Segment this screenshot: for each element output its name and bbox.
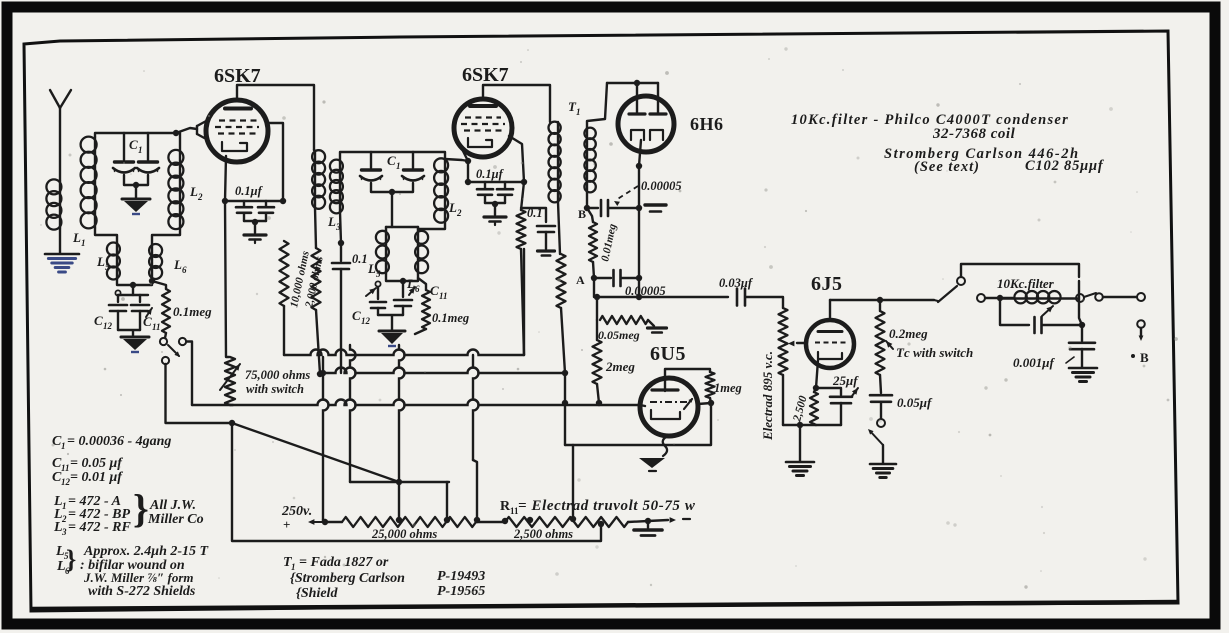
capacitor C11 (tank2) bbox=[394, 281, 415, 315]
svg-text:32-7368 coil: 32-7368 coil bbox=[932, 126, 1016, 142]
coil tank1 primary bbox=[81, 137, 97, 229]
svg-text:L: L bbox=[367, 261, 376, 276]
ground (U1 bypass) bbox=[244, 235, 266, 243]
wire to ground U5 bbox=[799, 425, 801, 461]
svg-text:0.03μf: 0.03μf bbox=[719, 276, 754, 290]
coil 10Kc filter bbox=[1000, 291, 1078, 303]
note L2 value bbox=[53, 507, 130, 524]
note 10Kc filter Philco bbox=[791, 112, 1069, 128]
note bifilar bbox=[80, 558, 185, 573]
wire caps node U1 bbox=[244, 219, 266, 233]
terminal output bbox=[1137, 293, 1145, 301]
resistor 0.01meg bbox=[587, 208, 597, 278]
svg-text:3: 3 bbox=[61, 527, 67, 537]
svg-text:5: 5 bbox=[376, 269, 381, 279]
svg-text:6: 6 bbox=[182, 265, 187, 275]
wire bus H2 bbox=[192, 400, 640, 407]
label C1 (tank2) bbox=[387, 153, 401, 171]
wire U1 screen right bbox=[266, 123, 286, 204]
svg-text:1: 1 bbox=[576, 107, 581, 117]
label with switch bbox=[246, 382, 304, 396]
wire pot middle bbox=[476, 518, 508, 524]
coil L5 bbox=[107, 243, 120, 280]
trimmer capacitor C1c bbox=[360, 152, 382, 181]
label C12 (tank1) bbox=[94, 313, 113, 331]
wire to 0.05uf bbox=[880, 375, 881, 393]
label 0.00005 (B) bbox=[641, 179, 682, 193]
svg-text:Electrad 895 v.c.: Electrad 895 v.c. bbox=[760, 351, 775, 441]
label 6SK7 (U2) bbox=[462, 64, 509, 86]
ground (0.1 mid) bbox=[538, 251, 555, 256]
coil L2 (tank2) bbox=[434, 158, 448, 222]
ground (tank1 trimmers) bbox=[122, 199, 150, 214]
svg-text:1: 1 bbox=[396, 161, 401, 171]
label 6SK7 (U1) bbox=[214, 65, 261, 87]
ground (B) bbox=[645, 205, 666, 212]
wire U2 screen bbox=[509, 136, 524, 210]
wire L3p to resistor bbox=[315, 208, 316, 248]
coil L5 (tank2) bbox=[376, 230, 389, 274]
capacitor 0.1uf b (U1) bbox=[258, 201, 274, 221]
wire tank1 top bbox=[95, 133, 176, 137]
wire caps bottom bbox=[118, 330, 140, 336]
wire filter lower right bbox=[1042, 322, 1085, 328]
svg-text:C: C bbox=[143, 314, 152, 329]
svg-text:0.1μf: 0.1μf bbox=[235, 184, 264, 198]
svg-text:C: C bbox=[94, 313, 103, 328]
label 0.01meg bbox=[599, 222, 619, 262]
ground (0.05meg) bbox=[648, 328, 667, 333]
svg-text:C: C bbox=[430, 283, 439, 298]
label C12 (tank2) bbox=[352, 308, 371, 326]
label 6H6 (U3) bbox=[690, 114, 724, 134]
note Stromberg P19493 bbox=[290, 569, 485, 586]
label L6 (tank2) bbox=[406, 276, 420, 294]
coil L6 (tank2) bbox=[415, 230, 428, 274]
svg-text:0.05meg: 0.05meg bbox=[598, 328, 640, 342]
svg-text:0.001μf: 0.001μf bbox=[1013, 355, 1055, 370]
label 0.1meg (tank1) bbox=[173, 304, 212, 319]
label 0.2meg bbox=[889, 326, 928, 341]
label 10Kc filter bbox=[997, 276, 1055, 291]
label 6U5 (U4) bbox=[650, 343, 686, 365]
label C11 (tank2) bbox=[430, 283, 448, 301]
coil L6 bbox=[149, 244, 162, 279]
wire caps bus U1 bbox=[225, 200, 283, 202]
capacitor 0.00005 (B) bbox=[601, 200, 608, 216]
arrow 250v bbox=[308, 519, 330, 525]
trimmer capacitor C1a bbox=[113, 133, 135, 173]
wire vert x447 bbox=[446, 482, 448, 520]
wire U3 cathode down bbox=[636, 163, 642, 297]
wire U5 cathode bbox=[813, 360, 819, 391]
svg-text:with S-272 Shields: with S-272 Shields bbox=[88, 584, 196, 599]
svg-text:+: + bbox=[283, 517, 290, 532]
svg-text:25μf: 25μf bbox=[832, 373, 859, 388]
svg-text:with switch: with switch bbox=[246, 382, 304, 396]
svg-text:10Kс.filter: 10Kс.filter bbox=[997, 276, 1055, 291]
wire B line bbox=[584, 205, 598, 211]
wire grid tap arrow bbox=[788, 341, 806, 347]
switch (output) bbox=[868, 402, 885, 463]
resistor 2500 (cathode) bbox=[810, 388, 818, 425]
wire to output bbox=[1103, 296, 1136, 298]
note C102 bbox=[1025, 158, 1105, 174]
capacitor 25uf bbox=[816, 388, 852, 425]
transformer T1 primary bbox=[549, 122, 561, 254]
wire return left bbox=[232, 423, 601, 541]
svg-text:Miller Co: Miller Co bbox=[147, 512, 204, 527]
svg-text:0.1meg: 0.1meg bbox=[432, 311, 469, 325]
wire A to cap bbox=[597, 294, 728, 300]
ground (0.001uf) bbox=[1069, 368, 1097, 382]
svg-text:= 472 - RF: = 472 - RF bbox=[68, 520, 131, 535]
wire vert x573 bbox=[572, 445, 574, 518]
wire bypass loop bbox=[961, 264, 1079, 277]
wire U1 cathode down bbox=[222, 156, 229, 357]
capacitor 0.1uf a (U2) bbox=[477, 182, 493, 203]
svg-text:1: 1 bbox=[62, 501, 67, 511]
label 0.1uf (U1) bbox=[235, 184, 264, 198]
label 1meg bbox=[714, 381, 742, 395]
ground (output sw) bbox=[870, 464, 896, 478]
svg-text:2: 2 bbox=[197, 192, 203, 202]
svg-text:All J.W.: All J.W. bbox=[149, 498, 196, 513]
wire cathode bottom bbox=[783, 422, 841, 428]
label 0.1 (tank2) bbox=[352, 252, 368, 266]
wire pot to minus bbox=[648, 517, 690, 523]
wire U5 plate bbox=[829, 300, 831, 320]
coil L3 primary bbox=[312, 150, 325, 209]
wire trimmer node tank2 bbox=[371, 183, 413, 227]
label 250v bbox=[281, 504, 312, 519]
svg-text:(See text): (See text) bbox=[914, 159, 980, 175]
ground (pot) bbox=[634, 521, 662, 536]
svg-text:L: L bbox=[96, 254, 105, 269]
label 2500 ohms bbox=[513, 527, 573, 541]
wire caps node U2 bbox=[485, 201, 505, 215]
terminal B plus bbox=[1131, 320, 1149, 365]
svg-text:6U5: 6U5 bbox=[650, 343, 686, 365]
capacitor 0.03uf bbox=[737, 289, 745, 306]
svg-text:= 0.05 μf: = 0.05 μf bbox=[70, 456, 123, 471]
ground (antenna) bbox=[45, 254, 79, 272]
svg-text:12: 12 bbox=[103, 321, 113, 331]
label 2000 ohms bbox=[303, 255, 326, 309]
wire A line bbox=[591, 275, 611, 281]
wire pot right end bbox=[628, 518, 651, 524]
wire vert x473 bbox=[473, 355, 479, 520]
tube U3 6H6 bbox=[618, 96, 674, 152]
note C11 value bbox=[52, 456, 123, 473]
note JW Miller form bbox=[83, 570, 194, 585]
node A bbox=[576, 273, 585, 287]
ground (U2 bypass) bbox=[484, 217, 506, 225]
svg-text:L: L bbox=[448, 200, 457, 215]
wire U4 cathode bbox=[663, 437, 667, 456]
wire U2 cathode bbox=[465, 161, 471, 185]
wire L2b to L6b bbox=[418, 222, 445, 229]
label 0.05meg bbox=[598, 328, 640, 342]
grid cap U1 bbox=[197, 120, 208, 140]
label 0.00005 (A) bbox=[625, 284, 666, 298]
note C1 value bbox=[52, 434, 171, 451]
coil L1 bbox=[46, 179, 61, 253]
wire vert x565 bbox=[562, 373, 568, 445]
wire plate line bbox=[830, 297, 934, 303]
capacitor 0.1uf a (U1) bbox=[236, 201, 252, 221]
tube U1 6SK7 bbox=[206, 100, 268, 162]
note C12 value bbox=[52, 470, 123, 487]
transformer T1 secondary bbox=[584, 128, 595, 208]
junction switch bus bbox=[229, 420, 235, 426]
wire bus H0 bbox=[284, 350, 524, 356]
switch filter in bbox=[934, 277, 985, 302]
wire L5b bottom bbox=[386, 274, 406, 284]
U3 cathodes bbox=[631, 130, 663, 166]
wire L3s to cap bbox=[338, 212, 344, 246]
coil L2 bbox=[168, 133, 183, 229]
svg-text:2,500 ohms: 2,500 ohms bbox=[513, 527, 573, 541]
label plus bbox=[283, 517, 290, 532]
svg-text:}: } bbox=[66, 545, 76, 574]
svg-text:5: 5 bbox=[105, 262, 110, 272]
svg-text:C: C bbox=[387, 153, 396, 168]
wire diagonal bbox=[232, 423, 399, 482]
switch S1 bbox=[160, 338, 186, 364]
resistor 0.05meg bbox=[597, 297, 654, 326]
svg-text:10Kс.filter - Philco C4000T co: 10Kс.filter - Philco C4000T condenser bbox=[791, 112, 1069, 128]
label 6J5 (U5) bbox=[811, 273, 843, 295]
wire vert x350 bbox=[350, 345, 356, 482]
note All JW bbox=[149, 498, 196, 513]
note brace JW bbox=[133, 486, 149, 531]
capacitor 0.05uf bbox=[870, 395, 892, 402]
svg-text:P-19493: P-19493 bbox=[437, 569, 485, 584]
svg-text:0.1: 0.1 bbox=[352, 252, 368, 266]
note See text bbox=[914, 159, 980, 175]
ground (tank1 caps) bbox=[121, 337, 149, 352]
label 75000 ohms bbox=[245, 368, 310, 382]
svg-text:11: 11 bbox=[61, 463, 70, 473]
label 0.001uf bbox=[1013, 355, 1074, 370]
label 0.1 (U2 screen) bbox=[527, 206, 543, 220]
svg-text:L: L bbox=[189, 184, 198, 199]
wire U1 plate to top bbox=[237, 85, 314, 150]
svg-text:= Fada 1827 or: = Fada 1827 or bbox=[299, 555, 389, 570]
svg-text:12: 12 bbox=[361, 316, 371, 326]
wire T1 sec top bbox=[587, 83, 607, 128]
note L1 value bbox=[53, 494, 121, 511]
resistor 2meg bbox=[593, 320, 602, 403]
svg-text:L: L bbox=[173, 257, 182, 272]
svg-text:C: C bbox=[129, 137, 138, 152]
svg-text:2: 2 bbox=[456, 208, 462, 218]
label L3 bbox=[327, 214, 341, 232]
svg-text:{Shield: {Shield bbox=[296, 586, 338, 601]
wire L5 bottom bbox=[117, 279, 136, 288]
note S272 shields bbox=[88, 584, 196, 599]
wire U2 plate top bbox=[483, 85, 550, 122]
svg-text:0.1μf: 0.1μf bbox=[476, 167, 505, 181]
svg-text:= 0.00036 - 4gang: = 0.00036 - 4gang bbox=[67, 434, 171, 449]
note T1 Fada bbox=[283, 555, 389, 572]
antenna bbox=[50, 90, 71, 181]
ground (U5 cathode) bbox=[786, 462, 814, 476]
label 0.03uf bbox=[719, 276, 754, 290]
note Stromberg Carlson bbox=[884, 146, 1080, 162]
label 2meg bbox=[605, 359, 635, 374]
svg-text:}: } bbox=[133, 486, 149, 531]
wire switch to H2 bus bbox=[187, 342, 193, 406]
svg-text:A: A bbox=[576, 273, 585, 287]
node B bbox=[578, 207, 586, 221]
svg-text:0.00005: 0.00005 bbox=[641, 179, 682, 193]
wire U4 grid bbox=[640, 405, 645, 406]
wire tank2 caps bottom bbox=[378, 315, 403, 330]
svg-text:11: 11 bbox=[439, 291, 448, 301]
svg-text:75,000 ohms: 75,000 ohms bbox=[245, 368, 310, 382]
note Approx bbox=[83, 544, 210, 559]
label L5 (tank2) bbox=[367, 261, 381, 279]
capacitor C12 (tank1) bbox=[109, 290, 127, 330]
label 0.05uf bbox=[897, 395, 933, 410]
note Miller Co bbox=[147, 512, 204, 527]
resistor 75000 ohms with switch bbox=[220, 357, 240, 405]
resistor 0.1 (U2 screen) bbox=[517, 210, 526, 355]
svg-text:= Electrad truvolt 50-75 w: = Electrad truvolt 50-75 w bbox=[518, 498, 696, 514]
svg-text:P-19565: P-19565 bbox=[437, 584, 485, 599]
svg-text:1meg: 1meg bbox=[714, 381, 742, 395]
label 25000 ohms bbox=[371, 527, 437, 541]
label L1 bbox=[72, 230, 86, 248]
wire tank1 to L5 bbox=[95, 228, 117, 243]
label L6 bbox=[173, 257, 187, 275]
svg-text:6: 6 bbox=[415, 284, 420, 294]
capacitor 0.1uf b (U2) bbox=[497, 182, 513, 203]
label 2500 bbox=[791, 394, 810, 423]
wire L2 to grid bbox=[173, 128, 197, 136]
svg-text:L: L bbox=[327, 214, 336, 229]
tube U2 6SK7 bbox=[454, 99, 512, 157]
svg-text:= 0.01 μf: = 0.01 μf bbox=[70, 470, 123, 485]
capacitor 0.1 mid bbox=[521, 208, 555, 249]
wire vert x323 bbox=[320, 357, 329, 520]
label L2 bbox=[189, 184, 203, 202]
wire filter right vert bbox=[1079, 281, 1082, 325]
wire switch lower to junction bbox=[166, 364, 231, 423]
wire caps bus U2 bbox=[468, 179, 527, 185]
resistor under T1 bbox=[557, 254, 566, 373]
capacitor C11 (tank1) bbox=[131, 305, 152, 330]
label L5 bbox=[96, 254, 110, 272]
label 0.1uf (U2) bbox=[476, 167, 505, 181]
label Tc with switch bbox=[886, 341, 973, 360]
svg-text:0.05μf: 0.05μf bbox=[897, 395, 933, 410]
trimmer capacitor C1d bbox=[402, 152, 424, 181]
ground (U4) bbox=[639, 458, 665, 471]
wire bus H0 up bbox=[523, 249, 525, 355]
wire 250v vert bbox=[323, 520, 325, 522]
svg-text:11: 11 bbox=[152, 322, 161, 332]
capacitor 0.00005 (A) bbox=[614, 270, 621, 286]
resistor 0.1meg (tank2) bbox=[415, 278, 430, 334]
label Electrad 895 vc bbox=[760, 351, 775, 441]
U3 diode plates bbox=[629, 96, 666, 114]
label C1 (tank1) bbox=[129, 137, 143, 155]
note L3 value bbox=[53, 520, 131, 537]
svg-text:6SK7: 6SK7 bbox=[462, 64, 509, 86]
label T1 bbox=[568, 99, 581, 117]
coil L3 secondary bbox=[330, 160, 343, 214]
wire A cap right bbox=[621, 275, 642, 281]
filter switch out bbox=[1076, 293, 1103, 302]
resistor Electrad 895 vc bbox=[779, 308, 788, 425]
label 0.1meg (tank2) bbox=[432, 311, 469, 325]
svg-text:1: 1 bbox=[61, 441, 66, 451]
resistor 1meg bbox=[706, 372, 715, 406]
wire bus H1 bbox=[320, 368, 568, 377]
note Shield P19565 bbox=[296, 584, 485, 601]
wire tank2 top bbox=[340, 152, 445, 161]
trimmer capacitor C1b bbox=[137, 133, 159, 173]
wire 6U5 loop bottom bbox=[565, 403, 711, 445]
svg-text:1: 1 bbox=[138, 145, 143, 155]
resistor 2000 ohms bbox=[312, 248, 324, 377]
capacitor 0.001uf bbox=[1069, 325, 1095, 367]
svg-text:J.W. Miller ⅞″ form: J.W. Miller ⅞″ form bbox=[83, 570, 194, 585]
wire to C12 C11 bbox=[118, 285, 148, 302]
wire cap to volume bbox=[746, 297, 783, 308]
svg-text:25,000 ohms: 25,000 ohms bbox=[371, 527, 437, 541]
wire L2 to L6 bbox=[152, 228, 180, 245]
potentiometer 2500 ohms bbox=[505, 516, 628, 527]
resistor 0.2meg bbox=[876, 300, 885, 375]
label C11 (tank1) bbox=[143, 314, 161, 332]
wire to coil bbox=[985, 295, 1013, 301]
wire tank2 L5 L6 tops bbox=[386, 227, 418, 230]
svg-text:6SK7: 6SK7 bbox=[214, 65, 261, 87]
wire tank2 to U2 grid bbox=[445, 149, 471, 164]
svg-text:B: B bbox=[1140, 350, 1149, 365]
label R11 Electrad truvolt bbox=[500, 498, 696, 516]
svg-text:0.2meg: 0.2meg bbox=[889, 326, 928, 341]
wire vert x399 bbox=[396, 345, 405, 520]
note L5 L6 bbox=[55, 544, 76, 576]
ground (tank2) bbox=[379, 331, 405, 346]
svg-text:Tс with switch: Tс with switch bbox=[896, 345, 973, 360]
capacitor 0.1 (tank2) bbox=[332, 243, 350, 373]
wire L6b bottom bbox=[403, 274, 418, 281]
wire U4 target loop bbox=[665, 369, 710, 391]
svg-text:0.1meg: 0.1meg bbox=[173, 304, 212, 319]
svg-text:1: 1 bbox=[81, 238, 86, 248]
arrow to B cap bbox=[614, 186, 638, 206]
wire trimmer node bbox=[124, 175, 148, 198]
wire cross y482 bbox=[350, 481, 449, 483]
svg-text:C102 85μμf: C102 85μμf bbox=[1025, 158, 1105, 174]
resistor 10000 ohms bbox=[280, 241, 289, 355]
wire U3 top bbox=[607, 80, 658, 96]
wire B cap to ground bbox=[608, 205, 642, 211]
label 10000 ohms bbox=[288, 250, 312, 309]
wire U4 right bbox=[698, 403, 711, 404]
svg-text:2meg: 2meg bbox=[605, 359, 635, 374]
label L2 (tank2) bbox=[448, 200, 462, 218]
svg-text:Approx. 2.4μh 2-15 T: Approx. 2.4μh 2-15 T bbox=[83, 544, 210, 559]
capacitor C12 (tank2) bbox=[366, 281, 386, 315]
svg-text:6J5: 6J5 bbox=[811, 273, 843, 295]
